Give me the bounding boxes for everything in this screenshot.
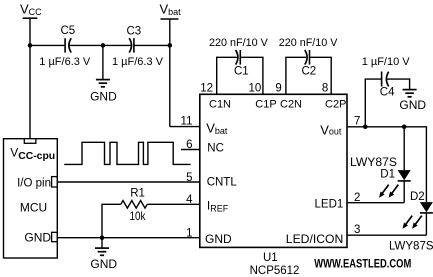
svg-text:D2: D2: [410, 191, 425, 203]
svg-text:1 µF/6.3 V: 1 µF/6.3 V: [39, 56, 91, 68]
svg-text:I/O pin: I/O pin: [17, 177, 51, 189]
svg-text:C2: C2: [302, 66, 317, 78]
svg-text:1 µF/6.3 V: 1 µF/6.3 V: [112, 56, 164, 68]
svg-text:LWY87S: LWY87S: [389, 238, 433, 252]
svg-text:D1: D1: [380, 169, 395, 181]
svg-text:1 µF/10 V: 1 µF/10 V: [362, 56, 411, 68]
svg-text:NCP5612: NCP5612: [250, 265, 300, 277]
svg-text:LED/ICON: LED/ICON: [286, 232, 344, 246]
svg-text:GND: GND: [90, 89, 117, 103]
svg-text:7: 7: [354, 115, 360, 127]
svg-text:GND: GND: [205, 232, 232, 246]
svg-text:CNTL: CNTL: [207, 177, 238, 189]
svg-text:C2N: C2N: [280, 99, 302, 111]
svg-text:R1: R1: [130, 187, 145, 199]
svg-text:C4: C4: [380, 87, 395, 99]
svg-text:9: 9: [275, 83, 281, 95]
svg-text:11: 11: [181, 116, 193, 128]
svg-text:WWW.EASTLED.COM: WWW.EASTLED.COM: [314, 258, 411, 270]
svg-text:C1N: C1N: [209, 99, 231, 111]
svg-text:GND: GND: [90, 257, 117, 271]
svg-text:GND: GND: [24, 231, 51, 245]
svg-text:C5: C5: [61, 25, 76, 37]
svg-text:5: 5: [186, 172, 192, 184]
svg-text:1: 1: [186, 227, 192, 239]
svg-text:U1: U1: [263, 252, 278, 264]
svg-text:220 nF/10 V: 220 nF/10 V: [279, 37, 339, 49]
svg-text:3: 3: [354, 224, 360, 236]
svg-text:C1: C1: [234, 66, 249, 78]
svg-text:4: 4: [186, 194, 193, 206]
svg-text:8: 8: [322, 83, 328, 95]
svg-text:C3: C3: [127, 26, 142, 38]
svg-text:2: 2: [354, 192, 360, 204]
svg-text:12: 12: [200, 83, 213, 95]
svg-text:GND: GND: [399, 98, 426, 112]
svg-text:220 nF/10 V: 220 nF/10 V: [209, 37, 269, 49]
svg-text:C2P: C2P: [325, 99, 346, 111]
svg-text:C1P: C1P: [255, 99, 276, 111]
svg-text:MCU: MCU: [20, 200, 47, 214]
svg-text:LWY87S: LWY87S: [350, 155, 397, 169]
svg-text:LED1: LED1: [315, 199, 344, 211]
svg-text:NC: NC: [207, 143, 224, 155]
svg-text:10k: 10k: [130, 209, 147, 223]
svg-text:6: 6: [186, 139, 192, 151]
svg-text:10: 10: [249, 83, 262, 95]
